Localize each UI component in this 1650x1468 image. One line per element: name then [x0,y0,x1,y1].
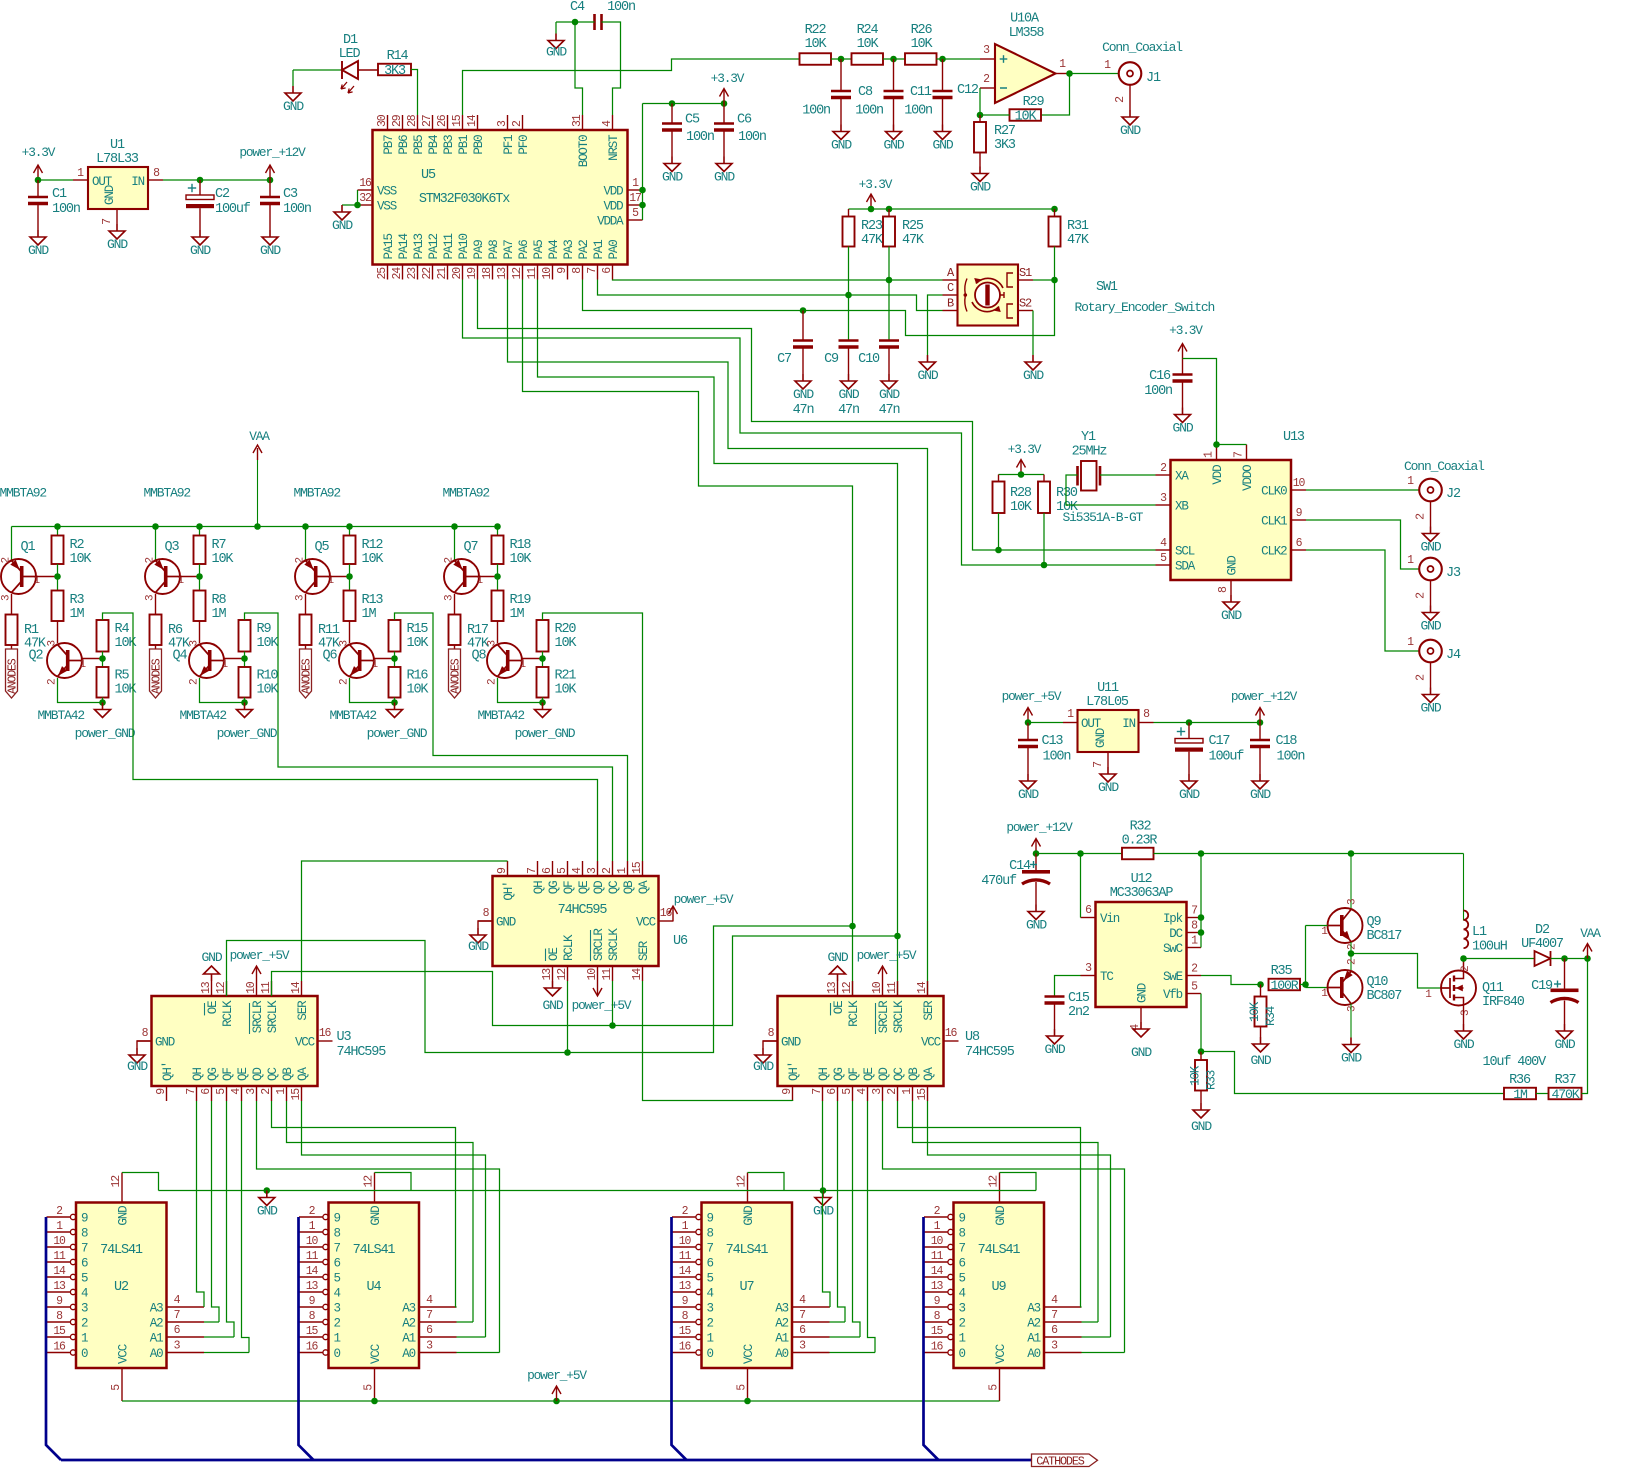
wire base [330,576,350,578]
pin 15 QA [301,1086,303,1101]
svg-text:PA1: PA1 [592,240,606,260]
ground power_GND [394,703,396,710]
svg-text:2: 2 [682,1205,689,1218]
resistor R9 10K [239,620,251,652]
svg-text:1M: 1M [70,607,85,622]
ground [840,125,842,132]
svg-text:9: 9 [309,1295,316,1308]
pin 1 QB [912,1086,914,1101]
U4 pin 2 input 9 [299,1216,323,1218]
svg-text:2: 2 [487,679,499,685]
svg-text:12: 12 [556,968,569,981]
capacitor C12 [942,59,944,91]
ground [1564,1024,1566,1031]
svg-text:2: 2 [934,1205,941,1218]
node [1018,471,1025,478]
svg-text:GND: GND [107,237,128,252]
U9 pin 1 input 8 [924,1231,948,1233]
U2 pin 10 input 7 [47,1246,71,1248]
svg-text:5: 5 [988,1384,1001,1391]
svg-text:PA13: PA13 [412,233,426,259]
svg-text:3: 3 [1051,1340,1058,1353]
svg-text:PB6: PB6 [397,135,411,155]
IC U12 MC33063AP [1096,902,1187,1007]
svg-text:PB1: PB1 [457,135,471,155]
pin 6 QG [837,1086,839,1101]
U7 pin 3 A0 [792,1352,830,1354]
svg-text:power_GND: power_GND [217,726,278,741]
transistor Q8 MMBTA42 [497,621,499,643]
transistor Q5 MMBTA92 [305,527,307,561]
svg-text:9: 9 [959,1212,966,1226]
U4 pin 7 A2 [419,1321,457,1323]
svg-text:R10: R10 [257,669,279,684]
ground [1350,1038,1352,1045]
svg-text:74HC595: 74HC595 [965,1045,1015,1060]
svg-text:VCC: VCC [636,916,656,930]
U13 pin 3 XB [1156,504,1171,506]
svg-text:PF1: PF1 [502,135,516,155]
svg-text:6: 6 [1296,537,1303,550]
svg-text:IRF840: IRF840 [1482,995,1525,1010]
wire [999,474,1045,476]
svg-text:R34: R34 [1264,1006,1278,1026]
svg-text:GND: GND [793,387,814,402]
svg-text:A2: A2 [1027,1317,1040,1331]
svg-text:5: 5 [363,1384,376,1391]
svg-text:GND: GND [468,939,489,954]
svg-text:R2: R2 [70,538,85,553]
svg-text:9: 9 [56,1295,63,1308]
wire SRCLK net [272,936,898,1026]
svg-text:14: 14 [306,1265,319,1278]
U7 pin 15 input 1 [672,1336,696,1338]
capacitor C2 [199,180,201,195]
U2 pin 15 input 1 [47,1336,71,1338]
svg-text:11: 11 [886,981,899,994]
VAA rail wire [12,526,498,528]
U9 pin 10 input 7 [924,1246,948,1248]
node U8 SRCLK [894,933,901,940]
U5 pin 16 VSS [358,189,373,191]
U5 pin 17 VDD [628,204,643,206]
wire VDDO [1217,444,1247,446]
op-amp U10A [995,44,1056,103]
svg-text:3: 3 [444,595,456,601]
node SW [1460,955,1467,962]
svg-text:11: 11 [931,1250,944,1263]
wire U8 outputs to U7 inputs [823,1101,831,1307]
svg-text:1: 1 [959,1332,966,1346]
node [152,523,159,530]
U9 pin 12 GND [999,1173,1001,1203]
svg-text:D2: D2 [1535,923,1550,938]
svg-text:1: 1 [682,1220,689,1233]
svg-text:11: 11 [601,968,614,981]
U7 pin 13 input 4 [672,1291,696,1293]
svg-text:R30: R30 [1056,486,1078,501]
svg-text:2: 2 [1,557,13,563]
svg-text:MMBTA42: MMBTA42 [478,708,525,723]
svg-text:10K: 10K [555,636,578,651]
svg-text:7: 7 [1092,762,1105,768]
svg-text:PA15: PA15 [382,233,396,259]
svg-text:1: 1 [1059,58,1066,71]
resistor R7 10K [199,527,201,536]
U13 pin 2 XA [1156,474,1171,476]
svg-text:QC: QC [607,881,621,894]
svg-text:3: 3 [174,1340,181,1353]
U9 pin 3 A0 [1044,1352,1082,1354]
svg-text:Conn_Coaxial: Conn_Coaxial [1404,459,1485,474]
svg-text:16: 16 [306,1341,319,1354]
svg-text:QH: QH [191,1068,205,1081]
wire feedback to R36 [1201,1052,1504,1094]
svg-text:QB: QB [622,880,636,894]
U5 pin 19 PA9 [477,265,479,280]
svg-text:R27: R27 [994,124,1016,139]
regulator U1 [88,167,148,209]
svg-text:GND: GND [202,950,223,965]
capacitor C14 470uf [1035,854,1037,871]
pin 8 GND [478,920,493,922]
U13 pin 4 SCL [1156,549,1171,551]
transistor Q2 MMBTA42 [57,621,59,643]
pin 2 QC [612,861,614,876]
svg-text:470K: 470K [1551,1087,1579,1102]
power +12V symbol [1035,840,1037,854]
svg-text:GND: GND [1555,1037,1576,1052]
svg-text:10K: 10K [510,552,533,567]
svg-text:OUT: OUT [1081,717,1102,731]
pin 8 GND [137,1040,152,1042]
svg-text:VAA: VAA [249,429,270,444]
U2 pin 11 input 6 [47,1261,71,1263]
ground [723,157,725,164]
ground [1035,905,1037,912]
wire CLK0 [1306,489,1419,491]
U5 pin 8 PA2 [582,265,584,280]
power +5V above U3 SRCLR [256,967,258,981]
wire XB [1066,475,1156,505]
pin 4 QE [582,861,584,876]
svg-text:+3.3V: +3.3V [859,177,893,192]
transistor Q6 MMBTA42 [349,621,351,643]
svg-text:8: 8 [153,167,160,180]
SW1 pin B [943,310,958,312]
svg-text:16: 16 [931,1341,944,1354]
bus CATHODES horizontal [61,1459,1032,1462]
svg-text:R26: R26 [911,23,933,38]
svg-text:GND: GND [970,180,991,195]
svg-text:GND: GND [1045,1042,1066,1057]
svg-text:1M: 1M [510,607,525,622]
svg-text:A3: A3 [402,1302,415,1316]
svg-text:100n: 100n [802,104,830,119]
U5 pin 1 VDD [628,189,643,191]
U4 pin 4 A3 [419,1306,457,1308]
node [939,56,946,63]
svg-text:11: 11 [306,1250,319,1263]
node U8 RCLK [849,923,856,930]
svg-text:Y1: Y1 [1081,430,1096,445]
U5 pin 26 PB3 [447,115,449,130]
resistor R12 10K [349,527,351,536]
pin 10 SRCLR [597,966,599,981]
svg-text:Q2: Q2 [29,649,44,664]
wire power +5V net [122,1400,1000,1402]
wire Q11 source to gnd [1463,1006,1465,1025]
svg-text:1: 1 [372,659,379,671]
svg-text:SRCLR: SRCLR [251,1000,265,1033]
svg-text:PA0: PA0 [607,240,621,260]
svg-text:LM358: LM358 [1009,26,1045,41]
wire base [479,576,498,578]
svg-text:100R: 100R [1270,978,1298,993]
ground [979,167,981,174]
svg-text:+3.3V: +3.3V [1008,442,1042,457]
svg-text:power_+5V: power_+5V [1002,689,1062,704]
svg-text:L1: L1 [1472,925,1487,940]
svg-text:PB7: PB7 [382,135,396,155]
svg-text:GND: GND [28,243,49,258]
svg-text:QF: QF [847,1068,861,1081]
svg-text:7: 7 [1191,905,1197,918]
svg-text:2: 2 [983,73,990,86]
svg-text:10: 10 [53,1235,66,1248]
svg-text:9: 9 [934,1295,941,1308]
U9 pin 2 input 9 [924,1216,948,1218]
svg-text:R7: R7 [212,538,227,553]
svg-text:U2: U2 [114,1280,129,1295]
svg-text:C13: C13 [1042,734,1064,749]
resistor R24 [852,53,884,65]
svg-text:C19: C19 [1531,979,1553,994]
svg-text:GND: GND [1136,983,1150,1003]
node U6 SRCLK [609,1022,616,1029]
svg-text:23: 23 [406,267,419,280]
svg-text:Rotary_Encoder_Switch: Rotary_Encoder_Switch [1075,300,1215,315]
svg-text:8: 8 [81,1227,88,1241]
ground [1107,767,1109,774]
capacitor C1 [37,180,39,197]
U5 pin 31 BOOT0 [582,115,584,130]
U2 pin 8 input 2 [47,1321,71,1323]
U9 pin 4 A3 [1044,1306,1082,1308]
pin 15 QA [642,861,644,876]
svg-text:10: 10 [931,1235,944,1248]
svg-text:10: 10 [245,981,258,994]
pin 15 QA [927,1086,929,1101]
wire to VAA [1582,959,1588,1094]
svg-text:+3.3V: +3.3V [22,145,56,160]
svg-text:2: 2 [1415,513,1428,520]
svg-text:12: 12 [363,1175,376,1188]
capacitor C7 [802,311,804,341]
svg-text:10K: 10K [911,37,934,52]
resistor R29 [1010,109,1042,121]
node [977,112,984,119]
pin 7 QH [196,1086,198,1101]
svg-text:GND: GND [1023,368,1044,383]
U5 pin 25 PA15 [387,265,389,280]
resistor R32 [1122,848,1154,860]
svg-text:11: 11 [679,1250,692,1263]
svg-text:QA: QA [922,1067,936,1081]
svg-text:UF4007: UF4007 [1521,937,1564,952]
svg-text:U11: U11 [1097,681,1119,696]
svg-text:9: 9 [707,1212,714,1226]
node opamp out [1066,70,1073,77]
svg-text:14: 14 [931,1265,944,1278]
node [99,655,106,662]
svg-text:16: 16 [359,177,372,190]
svg-text:3: 3 [145,595,157,601]
node [494,523,501,530]
svg-text:+3.3V: +3.3V [1169,323,1203,338]
svg-text:PA9: PA9 [472,240,486,260]
U5 pin 27 PB4 [432,115,434,130]
svg-text:10: 10 [586,968,599,981]
svg-text:R21: R21 [555,669,577,684]
U12 pin 8 DC [1187,932,1202,934]
svg-text:GND: GND [918,368,939,383]
svg-text:QA: QA [296,1067,310,1081]
svg-text:SER: SER [296,1000,310,1021]
connector J1 [1119,62,1142,85]
SW1 pin A [943,279,958,281]
resistor R21 10K [537,667,549,698]
svg-text:26: 26 [436,114,449,127]
svg-text:MMBTA92: MMBTA92 [443,486,490,501]
node [1186,719,1193,726]
U4 pin 11 input 6 [299,1261,323,1263]
svg-text:5: 5 [632,207,639,220]
U13 pin 5 SDA [1156,564,1171,566]
svg-text:6: 6 [81,1257,88,1271]
resistor R4 10K [97,620,109,652]
svg-text:100n: 100n [52,202,80,217]
U7 pin 7 A2 [792,1321,830,1323]
U5 pin 5 VDDA [628,219,643,221]
svg-text:10K: 10K [257,683,280,698]
ground U8 pin8 [763,1041,778,1048]
svg-text:A1: A1 [775,1332,788,1346]
ground [1182,408,1184,415]
ground above U3 OE [211,974,213,981]
hierarchical label ANODES [155,645,157,649]
svg-text:U3: U3 [337,1030,352,1045]
svg-text:ANODES: ANODES [151,658,164,694]
svg-text:SRCLR: SRCLR [592,928,606,961]
svg-text:MMBTA42: MMBTA42 [38,708,85,723]
svg-text:100n: 100n [738,130,766,145]
svg-text:10K: 10K [407,683,430,698]
svg-text:C1: C1 [52,187,67,202]
svg-text:R31: R31 [1067,219,1089,234]
wire U3 QH to U2 A3 [197,1101,205,1307]
svg-text:OE: OE [547,948,561,961]
svg-text:0: 0 [707,1347,714,1361]
power +3.3V symbol [1020,461,1022,475]
svg-text:A3: A3 [1027,1302,1040,1316]
svg-text:2: 2 [1114,96,1127,103]
pin 16 VCC [944,1040,959,1042]
svg-text:A1: A1 [1027,1332,1040,1346]
U4 pin 16 input 0 [299,1352,323,1354]
svg-text:A2: A2 [775,1317,788,1331]
svg-text:GND: GND [813,1204,834,1219]
svg-text:20: 20 [451,267,464,280]
svg-text:power_+5V: power_+5V [572,998,632,1013]
node [572,19,579,26]
svg-text:U5: U5 [421,168,436,183]
svg-text:C17: C17 [1209,734,1231,749]
svg-text:1: 1 [1104,59,1111,72]
U4 pin 12 GND [374,1173,376,1203]
svg-text:CLK0: CLK0 [1261,485,1287,499]
svg-text:100n: 100n [1043,750,1071,765]
resistor R36 1M [1504,1088,1536,1100]
svg-text:GND: GND [1098,780,1119,795]
svg-text:1M: 1M [1513,1087,1528,1102]
wire Ipk DC SwC [1200,854,1202,948]
svg-text:S1: S1 [1019,266,1032,280]
svg-text:RCLK: RCLK [221,1000,235,1027]
svg-text:SRCLK: SRCLK [607,928,621,961]
svg-text:3: 3 [983,44,990,57]
svg-text:0: 0 [959,1347,966,1361]
svg-text:1M: 1M [212,607,227,622]
svg-text:3K3: 3K3 [994,138,1016,153]
svg-text:VDD: VDD [1211,465,1225,485]
svg-text:VCC: VCC [742,1344,756,1364]
U9 pin 9 input 3 [924,1306,948,1308]
svg-text:16: 16 [319,1027,332,1040]
svg-text:VDDA: VDDA [597,215,624,229]
svg-text:19: 19 [466,267,479,280]
svg-text:D1: D1 [343,33,358,48]
wire RCLK net [227,926,853,1053]
svg-text:16: 16 [945,1027,958,1040]
wire S2 to gnd [1032,311,1034,356]
svg-text:10: 10 [1293,477,1306,490]
power +5V above U8 SRCLR [882,967,884,981]
svg-text:7: 7 [174,1309,180,1322]
svg-text:GND: GND [103,185,117,205]
svg-text:5: 5 [334,1272,341,1286]
svg-text:74LS41: 74LS41 [978,1243,1021,1258]
svg-text:3: 3 [1,595,13,601]
svg-text:VCC: VCC [369,1344,383,1364]
svg-text:9: 9 [81,1212,88,1226]
svg-text:SCL: SCL [1175,545,1195,559]
svg-text:QA: QA [637,880,651,894]
wire CLK2 [1306,550,1419,651]
wire base2 [82,658,103,660]
svg-text:GND: GND [127,1059,148,1074]
U5 pin 20 PA10 [462,265,464,280]
svg-text:7: 7 [185,1089,198,1095]
svg-text:GND: GND [369,1206,383,1226]
power +5V symbol [556,1387,558,1401]
svg-text:MMBTA42: MMBTA42 [330,708,377,723]
U5 pin 11 PA5 [537,265,539,280]
svg-text:10K: 10K [407,636,430,651]
svg-text:8: 8 [1217,586,1230,593]
svg-text:15: 15 [53,1325,66,1338]
svg-text:47n: 47n [838,403,859,418]
